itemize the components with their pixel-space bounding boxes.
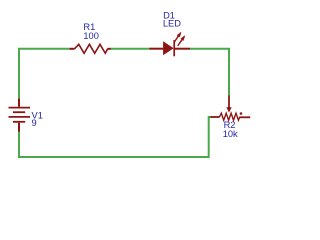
potentiometer R2 orientation dot (240, 112, 243, 115)
potentiometer R2 left lead (211, 116, 220, 118)
battery V1 plate long lower (9, 116, 31, 118)
LED D1 anode lead (150, 48, 165, 50)
wire: top rail from D1 to top-right corner, right rail down to R2 wiper (190, 49, 230, 96)
wire: top rail between R1 and D1 (111, 48, 151, 50)
LED D1 light arrow 2 stem (178, 36, 185, 46)
LED D1 light arrow 2 head (180, 35, 185, 41)
svg-text:LED: LED (163, 19, 181, 29)
resistor R1 (70, 44, 111, 53)
svg-text:100: 100 (83, 31, 99, 41)
battery V1 plate short upper (13, 111, 25, 113)
svg-text:9: 9 (32, 118, 37, 128)
battery V1 plate short lower (13, 121, 25, 123)
LED D1 triangle (164, 42, 173, 54)
resistor R1 zigzag body (75, 44, 108, 53)
potentiometer R2 (211, 96, 251, 121)
wire: left rail lower, bottom rail, R2 left leg up (19, 117, 212, 157)
svg-text:10k: 10k (223, 129, 238, 139)
potentiometer R2 wiper arrowhead (226, 107, 231, 112)
LED D1 cathode bar (173, 40, 175, 56)
LED D1 (150, 32, 191, 57)
LED D1 light arrow 1 head (177, 32, 182, 38)
battery V1 top lead (18, 99, 20, 107)
battery V1 plate long upper (9, 107, 31, 109)
potentiometer R2 right lead (240, 116, 250, 118)
resistor R1 left lead (70, 48, 75, 50)
potentiometer R2 wiper stem (228, 96, 230, 109)
battery V1 (9, 99, 31, 132)
wire: top-left corner, left rail upper + top rail to R1 (19, 49, 71, 100)
resistor R1 right lead (108, 48, 111, 50)
LED D1 cathode lead (175, 48, 190, 50)
LED D1 light arrow 1 stem (174, 33, 181, 43)
battery V1 bottom lead (18, 123, 20, 132)
potentiometer R2 zigzag body (220, 113, 240, 120)
